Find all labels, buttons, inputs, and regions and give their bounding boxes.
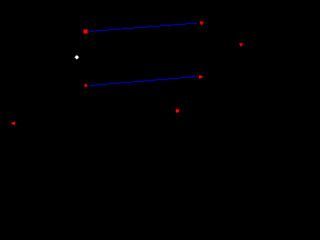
wire track 1 (blue trajectory upper)	[89, 23, 198, 32]
node lone marker triangle-left (13,123.2)	[11, 122, 15, 126]
node lone marker triangle-down (241,45)	[239, 44, 243, 47]
node start marker triangle-up (85.8,85.2)	[84, 84, 88, 87]
node lone marker square (177.4,110.8)	[176, 109, 179, 112]
node end marker triangle-right (201,76.9)	[199, 75, 203, 79]
wire track 2 (blue trajectory lower)	[89, 76, 198, 86]
node end marker triangle-down (201.5,23.2)	[200, 22, 204, 26]
node white diamond (76.8,57.3)	[75, 55, 79, 59]
node start marker square (85.5,31.5)	[84, 30, 88, 34]
